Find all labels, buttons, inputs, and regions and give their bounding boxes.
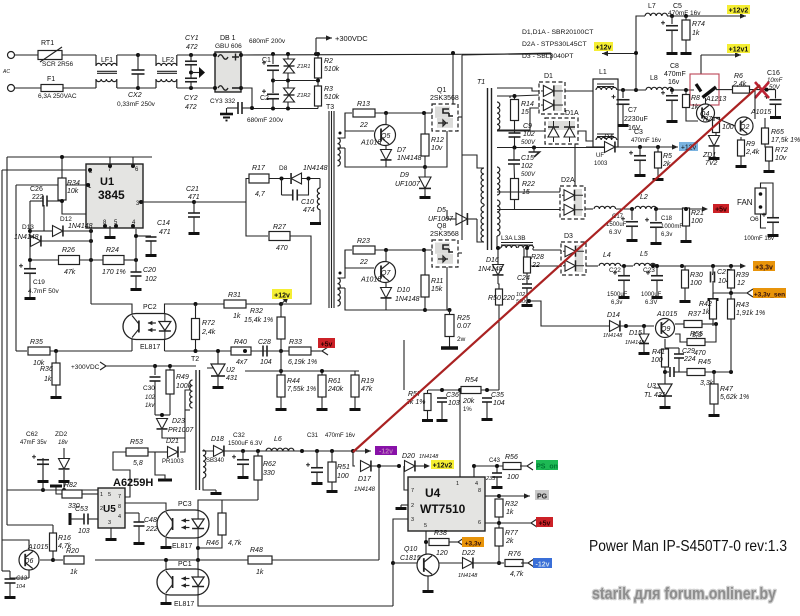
resistor R12 bbox=[421, 134, 444, 156]
C9 bottom lead bbox=[514, 137, 516, 148]
junction bbox=[397, 464, 401, 468]
svg-text:A1213: A1213 bbox=[705, 96, 726, 103]
svg-text:PC2: PC2 bbox=[143, 304, 157, 311]
Q6 emitter join bbox=[10, 577, 29, 579]
svg-text:D15: D15 bbox=[629, 330, 642, 337]
capacitor C20 bbox=[131, 267, 157, 283]
ground PC3 bbox=[161, 544, 172, 549]
ground C7 bbox=[618, 122, 629, 127]
ground C17 bbox=[627, 237, 638, 242]
wire to node bbox=[194, 201, 246, 203]
svg-text:+300VDC: +300VDC bbox=[71, 364, 100, 371]
R46 bottom wire bbox=[198, 535, 222, 548]
R32 top lead bbox=[280, 304, 282, 317]
svg-text:D3 - SBL3040PT: D3 - SBL3040PT bbox=[522, 53, 573, 60]
DB1 ~ bottom bbox=[218, 86, 228, 91]
diode D15 bbox=[629, 330, 649, 344]
T1 primary mid bbox=[483, 204, 485, 206]
svg-text:2,4k: 2,4k bbox=[745, 149, 760, 156]
wire F1 to LF1 bbox=[63, 87, 96, 89]
+12v arrow fb bbox=[281, 299, 287, 304]
R8 to Q4 wire bbox=[686, 117, 698, 121]
R62 top lead bbox=[257, 451, 259, 456]
rail end down bbox=[550, 53, 552, 60]
svg-text:1,91k 1%: 1,91k 1% bbox=[736, 310, 765, 317]
Q9 to R55 wire bbox=[675, 334, 687, 342]
junction bbox=[642, 324, 646, 328]
resistor R76 bbox=[505, 551, 524, 578]
capacitor C7 bbox=[612, 95, 630, 105]
svg-text:7V2: 7V2 bbox=[705, 160, 718, 167]
svg-text:100: 100 bbox=[690, 280, 702, 287]
svg-text:1k: 1k bbox=[506, 509, 514, 516]
zener ZD1 bbox=[702, 136, 720, 168]
junction bbox=[108, 164, 112, 168]
junction bbox=[422, 111, 426, 115]
svg-text:100k: 100k bbox=[176, 383, 192, 390]
capacitor C21 bbox=[186, 186, 200, 217]
C32 bottom lead bbox=[242, 464, 244, 474]
U2 cathode wire bbox=[217, 351, 219, 364]
svg-text:170 1%: 170 1% bbox=[102, 269, 126, 276]
svg-text:Q5: Q5 bbox=[381, 133, 390, 140]
diode D16 bbox=[478, 257, 504, 275]
R3 bottom lead bbox=[317, 106, 319, 109]
svg-text:500V: 500V bbox=[521, 172, 536, 178]
resistor R39 bbox=[728, 270, 749, 288]
svg-text:EL817: EL817 bbox=[174, 601, 194, 608]
junction bbox=[391, 561, 395, 565]
svg-text:D5: D5 bbox=[437, 207, 446, 214]
PS_on highlight bbox=[536, 460, 558, 470]
svg-text:R36: R36 bbox=[40, 366, 53, 373]
svg-text:5: 5 bbox=[108, 492, 111, 498]
resistor R16 bbox=[50, 533, 72, 551]
L1 winding bottom bbox=[596, 137, 617, 140]
ground C31 bbox=[312, 480, 323, 485]
wire LF1-CX2 top bbox=[117, 54, 138, 56]
R33 right wire bbox=[311, 350, 320, 352]
wire up from row bbox=[403, 340, 405, 390]
svg-text:102: 102 bbox=[145, 276, 157, 283]
Q1 drain wire bbox=[452, 53, 454, 104]
C10 left branch bbox=[281, 179, 283, 196]
junction bbox=[670, 14, 674, 18]
+12v1 highlight bbox=[727, 44, 750, 53]
resistor R24 bbox=[102, 247, 126, 276]
svg-text:R25: R25 bbox=[457, 315, 470, 322]
inductor L2 bbox=[635, 194, 657, 209]
C19 bottom lead bbox=[29, 273, 31, 295]
junction bbox=[451, 51, 455, 55]
junction bbox=[139, 200, 143, 204]
capacitor C32 bbox=[232, 455, 249, 465]
wire to D17 bbox=[353, 451, 355, 466]
svg-text:1500uF: 1500uF bbox=[606, 222, 627, 228]
svg-text:1k: 1k bbox=[233, 313, 241, 320]
resistor R45 bbox=[687, 359, 714, 387]
resistor R55 bbox=[687, 331, 706, 357]
C16 bottom lead bbox=[775, 104, 777, 114]
ground R25 bbox=[441, 346, 458, 350]
svg-text:PS_on: PS_on bbox=[536, 463, 558, 470]
CY mid wire bbox=[190, 65, 192, 78]
svg-text:U2: U2 bbox=[226, 367, 235, 374]
U3 anode wire bbox=[664, 396, 666, 404]
PC3 top wire bbox=[198, 500, 218, 510]
svg-text:Z1R1: Z1R1 bbox=[296, 64, 310, 70]
svg-text:2: 2 bbox=[100, 506, 103, 512]
svg-text:R2: R2 bbox=[324, 58, 333, 65]
U4 pin3 wire bbox=[393, 519, 408, 606]
R2 top lead bbox=[317, 54, 319, 58]
svg-text:D1,D1A - SBR20100CT: D1,D1A - SBR20100CT bbox=[522, 29, 593, 36]
Q5 base branch wire bbox=[344, 113, 346, 131]
R77 top lead bbox=[498, 523, 500, 528]
R9 top lead bbox=[740, 137, 742, 140]
svg-text:5: 5 bbox=[424, 523, 427, 529]
junction bbox=[655, 264, 659, 268]
L4-L5 wire bbox=[621, 265, 633, 267]
CX2 bottom lead bbox=[137, 74, 139, 88]
svg-text:100: 100 bbox=[691, 218, 703, 225]
C8 top lead bbox=[671, 90, 673, 94]
R21 top lead bbox=[685, 208, 687, 209]
svg-text:A1015: A1015 bbox=[27, 544, 48, 551]
+5v highlight bbox=[713, 204, 729, 213]
resistor R31 bbox=[224, 292, 246, 320]
ground C13 bbox=[5, 594, 16, 599]
Q5 emitter wire bbox=[385, 146, 387, 149]
C36 bottom lead bbox=[441, 402, 443, 417]
svg-text:SCR 2R56: SCR 2R56 bbox=[42, 61, 73, 68]
Q1 gate wire bbox=[424, 104, 434, 113]
svg-text:472: 472 bbox=[185, 104, 197, 111]
R47 bottom lead bbox=[713, 404, 715, 412]
Q1 source wire bbox=[425, 131, 447, 167]
resistor R42 bbox=[699, 299, 717, 319]
C22 bottom lead bbox=[623, 280, 625, 294]
T3 winding bottom wire bbox=[338, 147, 346, 149]
svg-text:15k: 15k bbox=[431, 286, 443, 293]
wire N to F1 bbox=[15, 87, 41, 89]
ground Q10 bbox=[423, 588, 434, 593]
svg-text:20k: 20k bbox=[462, 398, 475, 405]
RT1 diagonal bbox=[40, 47, 62, 62]
svg-text:D1A: D1A bbox=[565, 110, 579, 117]
svg-text:R16: R16 bbox=[58, 535, 71, 542]
left vertical wire D bbox=[1, 540, 3, 571]
svg-text:224: 224 bbox=[683, 356, 696, 363]
C31 bottom lead bbox=[316, 472, 318, 480]
svg-text:R35: R35 bbox=[30, 339, 43, 346]
+300VDC fork bbox=[100, 362, 113, 370]
junction bbox=[440, 388, 444, 392]
ground O6 bbox=[768, 232, 779, 237]
junction bbox=[729, 291, 733, 295]
svg-text:474: 474 bbox=[303, 207, 315, 214]
Q1 drain to vertical bbox=[458, 116, 462, 118]
svg-text:R44: R44 bbox=[287, 378, 300, 385]
junction bbox=[448, 308, 452, 312]
C13 top lead bbox=[9, 571, 11, 579]
capacitor C19 bbox=[19, 264, 36, 274]
C27 top lead bbox=[712, 266, 715, 275]
controller U5 A6259H bbox=[98, 488, 125, 528]
junction bbox=[422, 248, 426, 252]
svg-text:D7: D7 bbox=[397, 147, 407, 154]
U5 pin7 to R53 wire bbox=[113, 452, 130, 497]
svg-text:-12v: -12v bbox=[379, 448, 393, 455]
+12v2 highlight b bbox=[431, 460, 454, 469]
T3 winding upper bbox=[338, 138, 341, 166]
C23 bottom lead bbox=[656, 280, 658, 294]
resistor R20 bbox=[64, 548, 84, 576]
U4 pin8 wire bbox=[485, 495, 499, 497]
resistor R6 bbox=[732, 73, 750, 93]
svg-text:Q7: Q7 bbox=[381, 270, 391, 277]
C27 bottom lead bbox=[712, 281, 714, 296]
resistor R43 bbox=[728, 299, 766, 319]
junction bbox=[286, 79, 290, 83]
capacitor C17 bbox=[621, 217, 638, 227]
red diagonal annotation line bbox=[353, 85, 760, 452]
svg-text:4,7: 4,7 bbox=[255, 191, 266, 198]
junction bbox=[28, 229, 32, 233]
resistor R7 bbox=[703, 116, 734, 133]
diode D14 bbox=[607, 312, 620, 332]
svg-text:222: 222 bbox=[32, 194, 44, 201]
inductor L5 bbox=[634, 251, 656, 266]
R49 bottom lead bbox=[169, 394, 171, 415]
svg-text:R23: R23 bbox=[357, 238, 370, 245]
resistor R72b bbox=[766, 147, 788, 162]
wire up to R17 bbox=[246, 179, 249, 203]
svg-text:6.3V: 6.3V bbox=[609, 230, 621, 236]
R46 top lead bbox=[221, 500, 223, 513]
svg-text:C21: C21 bbox=[186, 186, 199, 193]
svg-text:R65: R65 bbox=[771, 129, 784, 136]
U4 pin6 wire bbox=[485, 522, 531, 524]
R74 top lead bbox=[685, 16, 687, 20]
transistor Q1 bbox=[430, 87, 459, 131]
svg-text:1N4148: 1N4148 bbox=[395, 296, 420, 303]
C26 right lead bbox=[47, 200, 62, 202]
R47 top lead bbox=[713, 372, 715, 384]
ground T3 aux bbox=[310, 222, 321, 225]
ZD1 bottom lead bbox=[713, 147, 715, 155]
C5 top lead bbox=[671, 16, 673, 24]
junction bbox=[513, 94, 517, 98]
junction bbox=[196, 546, 200, 550]
svg-text:C14: C14 bbox=[157, 220, 170, 227]
junction bbox=[497, 561, 501, 565]
R8 top lead bbox=[685, 90, 687, 95]
svg-text:R77: R77 bbox=[505, 530, 519, 537]
capacitor C16 bbox=[765, 95, 782, 105]
rectifier D1A bbox=[545, 118, 578, 144]
junction bbox=[320, 369, 324, 373]
U1 pin4 wire bbox=[135, 229, 137, 260]
-12v fork bbox=[521, 559, 534, 567]
T3 to R13 wire bbox=[338, 113, 353, 138]
svg-text:50V: 50V bbox=[769, 85, 781, 91]
svg-text:GBU 606: GBU 606 bbox=[215, 43, 242, 50]
svg-text:C1815: C1815 bbox=[400, 555, 421, 562]
svg-text:R32: R32 bbox=[505, 501, 518, 508]
R28 top lead bbox=[526, 248, 528, 257]
op-amp U1 3845 bbox=[86, 164, 143, 228]
junction bbox=[513, 146, 517, 150]
svg-text:C8: C8 bbox=[670, 63, 679, 70]
ground C14 bbox=[146, 252, 157, 257]
resistor R37 bbox=[684, 311, 702, 339]
diode D23 bbox=[157, 418, 195, 434]
junction bbox=[279, 302, 283, 306]
capacitor CY2 bbox=[185, 78, 197, 82]
resistor R5 bbox=[655, 152, 673, 168]
svg-text:1k: 1k bbox=[256, 569, 264, 576]
junction bbox=[189, 53, 193, 57]
standby rail bbox=[225, 450, 354, 452]
C62 top lead bbox=[42, 458, 44, 490]
R50 sense vertical wire bbox=[498, 305, 500, 390]
R42 top lead bbox=[712, 293, 714, 299]
resistor R3 bbox=[315, 86, 340, 106]
+3.3v fork u4 bbox=[451, 538, 464, 546]
shunt regulator U2 bbox=[207, 364, 238, 382]
R57 bottom lead bbox=[427, 411, 429, 418]
Q9 collector wire bbox=[675, 323, 684, 325]
junction bbox=[239, 53, 243, 57]
R43 top lead bbox=[730, 293, 732, 299]
svg-text:R28: R28 bbox=[531, 254, 544, 261]
R36 bottom lead bbox=[55, 385, 57, 394]
svg-text:7: 7 bbox=[411, 488, 414, 494]
resistor R47 bbox=[710, 384, 749, 404]
R82 left wire bbox=[56, 486, 62, 494]
svg-text:1N4148: 1N4148 bbox=[603, 333, 623, 339]
U4 pin1 wire bbox=[459, 390, 461, 477]
svg-text:6,3A 250VAC: 6,3A 250VAC bbox=[38, 93, 77, 100]
svg-text:SB340: SB340 bbox=[206, 458, 225, 464]
PC1 pin1 wire bbox=[165, 560, 167, 569]
+12v2 rail bbox=[667, 15, 746, 17]
resistor R2 bbox=[315, 58, 340, 78]
D20 out wire bbox=[416, 465, 429, 467]
svg-text:C48: C48 bbox=[144, 517, 157, 524]
capacitor C9 bbox=[509, 123, 535, 138]
svg-text:TL 431: TL 431 bbox=[644, 392, 666, 399]
sense row wire bbox=[428, 389, 460, 391]
+3.3v_sen highlight bbox=[753, 288, 786, 298]
svg-text:+3,3v: +3,3v bbox=[755, 264, 773, 271]
R19 bottom lead bbox=[354, 397, 356, 406]
Q4 top wire bbox=[705, 98, 707, 104]
svg-text:470mF 16v: 470mF 16v bbox=[631, 138, 661, 144]
resistor R19 bbox=[351, 375, 374, 397]
svg-text:2,4k: 2,4k bbox=[732, 81, 747, 88]
svg-text:R22: R22 bbox=[522, 181, 535, 188]
junction bbox=[60, 199, 64, 203]
C8 bottom lead bbox=[671, 100, 673, 118]
junction bbox=[472, 464, 476, 468]
svg-text:47k: 47k bbox=[64, 269, 76, 276]
wire to T2 bbox=[170, 365, 196, 367]
svg-text:CY3 332: CY3 332 bbox=[210, 98, 236, 105]
transistor Q8 bbox=[430, 223, 459, 267]
zener Z1R2 bbox=[284, 88, 295, 95]
svg-text:L2: L2 bbox=[640, 194, 648, 201]
U1 pin3 wire right bbox=[141, 201, 194, 203]
junction bbox=[216, 349, 220, 353]
D15 bottom lead bbox=[643, 344, 645, 350]
resistor R32b bbox=[495, 499, 518, 517]
U5 to PC3 wire bbox=[125, 503, 166, 510]
C48 bottom lead bbox=[138, 526, 140, 540]
capacitor C35 bbox=[482, 392, 505, 407]
ground U3 bbox=[660, 404, 671, 409]
svg-text:A1015: A1015 bbox=[360, 140, 381, 147]
ground C5 bbox=[667, 50, 678, 55]
choke L3B bbox=[518, 245, 534, 248]
+12v internal rail bbox=[616, 146, 679, 148]
capacitor C36 bbox=[437, 392, 460, 407]
switch blade annotation bbox=[703, 87, 717, 98]
svg-text:3: 3 bbox=[411, 517, 414, 523]
svg-text:C43: C43 bbox=[489, 458, 501, 464]
wire to R27 bbox=[246, 202, 268, 236]
svg-text:103: 103 bbox=[448, 400, 460, 407]
svg-text:330: 330 bbox=[263, 470, 275, 477]
R32b bottom lead bbox=[498, 517, 500, 523]
svg-text:2,4k: 2,4k bbox=[201, 329, 216, 336]
ground T2 sec bbox=[211, 490, 222, 495]
junction bbox=[280, 177, 284, 181]
svg-text:1: 1 bbox=[100, 492, 103, 498]
+3.3v_sen fork bbox=[740, 289, 753, 297]
transformer T3 core bbox=[328, 111, 330, 308]
capacitor C18 bbox=[645, 218, 662, 228]
junction bbox=[286, 52, 290, 56]
CY3 right lead bbox=[242, 107, 252, 109]
junction bbox=[316, 52, 320, 56]
svg-text:D21: D21 bbox=[166, 438, 179, 445]
junction bbox=[41, 488, 45, 492]
C53 right wire bbox=[88, 518, 98, 520]
D12 right wire bbox=[64, 230, 92, 232]
DB1 - mark bbox=[232, 87, 239, 89]
svg-text:220: 220 bbox=[502, 295, 515, 302]
PC2 pin3 wire bbox=[164, 340, 166, 352]
wire to D3 bottom bbox=[524, 265, 561, 267]
PC2 pin4 wire bbox=[165, 304, 196, 314]
U5 pin3 wire bbox=[110, 528, 112, 536]
+3.3v highlight bbox=[753, 261, 775, 271]
svg-text:5,62k 1%: 5,62k 1% bbox=[720, 394, 749, 401]
C7 bottom lead bbox=[622, 104, 624, 122]
C53 stub wire bbox=[70, 518, 76, 520]
svg-text:R48: R48 bbox=[250, 547, 263, 554]
inductor L6 bbox=[266, 436, 294, 451]
svg-text:starik для forum.onliner.by: starik для forum.onliner.by bbox=[592, 585, 777, 603]
junction bbox=[279, 369, 283, 373]
svg-text:470mF: 470mF bbox=[664, 71, 686, 78]
junction bbox=[684, 14, 688, 18]
svg-text:102: 102 bbox=[145, 395, 156, 401]
R76 right wire bbox=[523, 562, 528, 564]
diode D13 bbox=[14, 234, 41, 247]
